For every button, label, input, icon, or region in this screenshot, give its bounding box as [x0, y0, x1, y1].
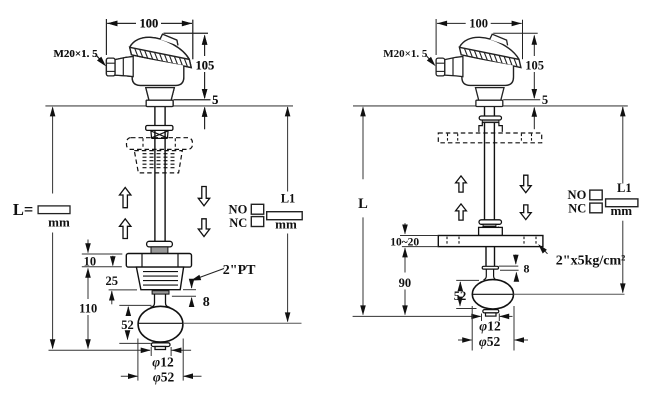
svg-text:L1: L1: [281, 192, 296, 206]
svg-text:NC: NC: [229, 216, 247, 230]
svg-text:NO: NO: [229, 202, 248, 216]
svg-text:25: 25: [106, 274, 119, 288]
svg-text:10: 10: [84, 254, 97, 268]
svg-text:mm: mm: [275, 216, 297, 231]
svg-text:2"x5kg/cm²: 2"x5kg/cm²: [556, 254, 626, 269]
svg-text:8: 8: [524, 261, 530, 275]
svg-text:2"PT: 2"PT: [223, 263, 256, 278]
svg-text:L=: L=: [13, 200, 33, 219]
svg-text:NC: NC: [568, 202, 586, 216]
svg-text:NO: NO: [568, 188, 587, 202]
svg-text:90: 90: [399, 276, 412, 290]
svg-text:110: 110: [79, 302, 97, 316]
svg-text:mm: mm: [48, 214, 70, 229]
svg-text:8: 8: [203, 295, 210, 310]
svg-text:L: L: [358, 196, 368, 212]
svg-text:L1: L1: [617, 181, 632, 195]
svg-text:mm: mm: [610, 203, 632, 218]
svg-text:φ52: φ52: [153, 369, 175, 384]
svg-text:φ12: φ12: [152, 354, 174, 369]
svg-text:52: 52: [121, 318, 134, 332]
svg-text:φ12: φ12: [479, 318, 501, 333]
svg-text:φ52: φ52: [479, 334, 501, 349]
